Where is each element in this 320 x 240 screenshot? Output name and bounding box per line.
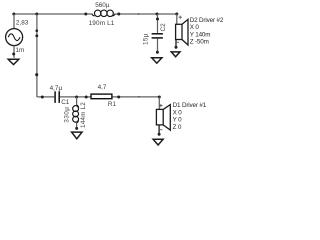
svg-text:Z 0: Z 0 bbox=[173, 124, 182, 131]
node T-junction x36 bbox=[35, 13, 38, 16]
wire bottom branch bbox=[37, 96, 159, 98]
wire vertical x36 bbox=[36, 14, 38, 97]
svg-text:Z -50m: Z -50m bbox=[190, 39, 209, 46]
plus mark D2 bbox=[179, 16, 182, 19]
svg-text:D1 Driver #1: D1 Driver #1 bbox=[173, 102, 207, 109]
ground source bbox=[8, 59, 19, 64]
resistor R1 bbox=[91, 94, 112, 99]
minus mark D1 bbox=[160, 129, 162, 131]
svg-text:4,7: 4,7 bbox=[98, 84, 107, 91]
node L2 tap bbox=[75, 96, 78, 99]
node bottom x42 bbox=[41, 96, 44, 99]
wire top rail bbox=[14, 13, 177, 15]
node at source top bbox=[12, 13, 15, 16]
node C2 tap bbox=[156, 13, 159, 16]
node above source ground bbox=[12, 53, 15, 56]
svg-text:560µ: 560µ bbox=[95, 2, 110, 9]
svg-text:15µ: 15µ bbox=[143, 33, 150, 45]
capacitor C2 bbox=[157, 14, 159, 33]
ground D1 bbox=[153, 139, 163, 145]
inductor L2 bbox=[76, 97, 78, 128]
minus mark D2 bbox=[177, 41, 179, 43]
node above C2 ground bbox=[156, 51, 159, 54]
node above D2 ground bbox=[175, 46, 178, 49]
ground L2 bbox=[72, 132, 82, 139]
node x36 y35.8 bbox=[35, 34, 38, 37]
svg-text:1m: 1m bbox=[15, 47, 24, 54]
AC source V1 bbox=[6, 14, 23, 58]
driver D1 bbox=[158, 97, 160, 109]
svg-text:D2 Driver #2: D2 Driver #2 bbox=[190, 17, 224, 24]
node small mid rail bbox=[138, 13, 140, 15]
inductor L1 bbox=[92, 10, 115, 16]
node L1 left bbox=[84, 13, 87, 16]
node above L2 ground bbox=[75, 127, 78, 130]
node after R1 bbox=[117, 96, 120, 99]
ground D2 bbox=[171, 52, 180, 57]
node D2 corner bbox=[175, 13, 178, 16]
capacitor C1 bbox=[55, 91, 59, 103]
svg-text:2,83: 2,83 bbox=[16, 20, 29, 27]
svg-text:Y 0: Y 0 bbox=[173, 117, 183, 124]
svg-text:144m L2: 144m L2 bbox=[80, 102, 87, 128]
node small bottom mid bbox=[138, 96, 140, 98]
node x36 y30.7 bbox=[36, 29, 39, 32]
node L1 right bbox=[117, 13, 120, 16]
svg-text:X 0: X 0 bbox=[190, 24, 200, 31]
node bottom x86 bbox=[85, 96, 88, 99]
node C2 stub bbox=[156, 18, 159, 21]
node above D1 ground bbox=[158, 133, 161, 136]
svg-text:R1: R1 bbox=[108, 101, 117, 108]
svg-text:C1: C1 bbox=[61, 99, 70, 106]
node x36 y74.7 bbox=[35, 73, 38, 76]
svg-text:Y 140m: Y 140m bbox=[190, 31, 211, 38]
driver D2 bbox=[176, 14, 178, 24]
svg-text:190m L1: 190m L1 bbox=[89, 20, 115, 27]
node D1 corner bbox=[158, 96, 161, 99]
svg-text:C2: C2 bbox=[160, 23, 167, 32]
plus mark D1 bbox=[159, 104, 162, 107]
svg-text:4,7µ: 4,7µ bbox=[50, 85, 63, 92]
svg-text:X 0: X 0 bbox=[173, 109, 183, 116]
ground C2 bbox=[152, 58, 162, 64]
svg-text:330µ: 330µ bbox=[63, 107, 70, 123]
